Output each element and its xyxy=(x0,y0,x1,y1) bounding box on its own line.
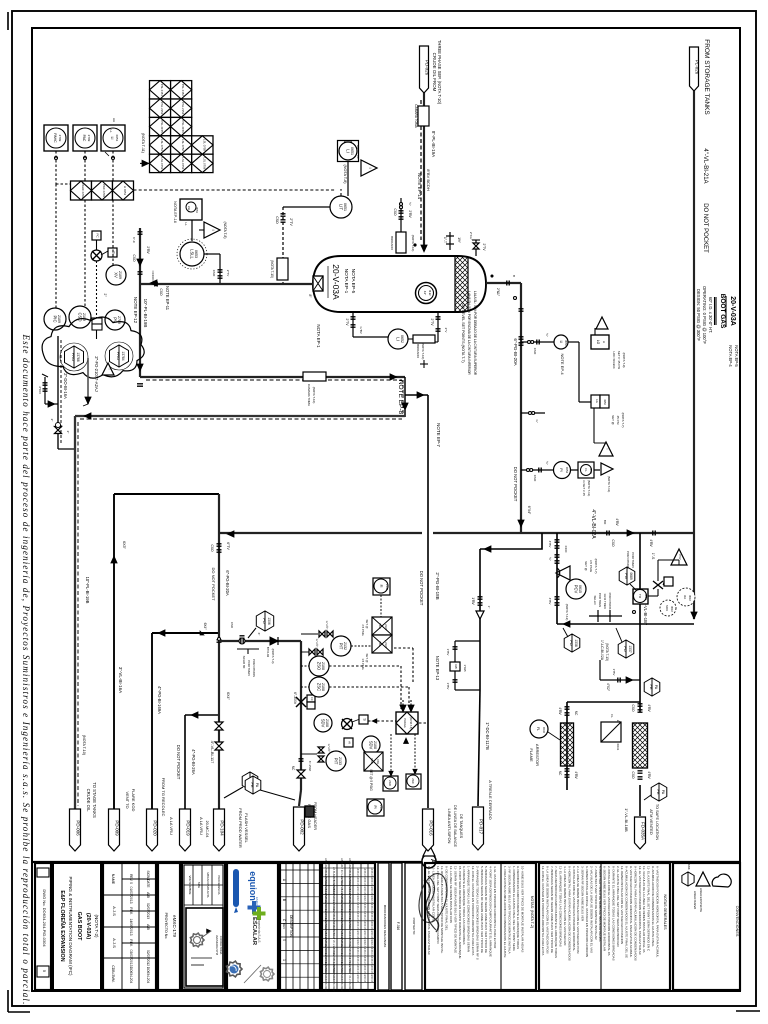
svg-text:SOV: SOV xyxy=(665,605,669,611)
svg-text:14/06/13: 14/06/13 xyxy=(356,973,358,983)
svg-text:NC: NC xyxy=(574,711,578,716)
svg-text:4″-PG-BI-26A: 4″-PG-BI-26A xyxy=(191,749,196,775)
svg-text:(NOTA T-11): (NOTA T-11) xyxy=(141,133,145,153)
svg-text:F-016: F-016 xyxy=(396,922,400,931)
svg-text:NOTE EP-11: NOTE EP-11 xyxy=(165,286,170,311)
svg-text:CSO: CSO xyxy=(611,540,615,547)
svg-text:NOTE EP-8: NOTE EP-8 xyxy=(397,380,404,415)
svg-text:2″-PG-BI-18B: 2″-PG-BI-18B xyxy=(435,572,440,599)
svg-text:PROYECTO No.: PROYECTO No. xyxy=(164,913,168,940)
svg-text:1″-DC-BI-117B: 1″-DC-BI-117B xyxy=(485,722,490,750)
svg-text:(NOTA T-3): (NOTA T-3) xyxy=(271,648,275,663)
svg-text:0: 0 xyxy=(282,939,286,941)
svg-text:AS BUILT 20-V-03A REV: AS BUILT 20-V-03A REV xyxy=(332,964,335,992)
svg-text:2132: 2132 xyxy=(384,624,388,630)
svg-text:DE TANQUES: DE TANQUES xyxy=(459,814,463,839)
svg-text:2108: 2108 xyxy=(325,719,329,727)
svg-text:PD-017: PD-017 xyxy=(479,819,484,835)
svg-text:5- B16.5 VER TIPICO DE MONTAJE: 5- B16.5 VER TIPICO DE MONTAJE INSTALAR … xyxy=(598,866,602,942)
svg-text:4″BV: 4″BV xyxy=(647,704,651,712)
svg-text:2- VALVULAS DE LA LINEA SE DEB: 2- VALVULAS DE LA LINEA SE DEBEN INSTALA… xyxy=(589,866,593,953)
svg-text:AVANZADA SYM: AVANZADA SYM xyxy=(215,935,219,955)
svg-text:A.B: A.B xyxy=(146,924,150,930)
svg-text:20-V-03A: 20-V-03A xyxy=(331,264,341,300)
svg-text:ATM VENTED: ATM VENTED xyxy=(649,809,654,835)
svg-text:0610: 0610 xyxy=(670,606,674,612)
svg-text:10″-PL-BI-19B: 10″-PL-BI-19B xyxy=(85,577,90,604)
svg-text:LL: LL xyxy=(356,155,360,159)
svg-text:0610: 0610 xyxy=(688,595,692,601)
svg-text:(NOTA T-10): (NOTA T-10) xyxy=(411,235,415,252)
svg-text:2″X¾″: 2″X¾″ xyxy=(469,232,473,240)
svg-text:(20-V-03A): (20-V-03A) xyxy=(85,913,91,940)
svg-text:2108: 2108 xyxy=(321,662,325,670)
svg-text:10- ASME B16.5 VER TIPICO DE M: 10- ASME B16.5 VER TIPICO DE MONTAJE INS… xyxy=(521,866,525,952)
svg-text:SIGN/DATE: SIGN/DATE xyxy=(146,871,150,888)
svg-text:8- DURANTE EL ARRANQUE TODAS L: 8- DURANTE EL ARRANQUE TODAS LAS CONEXIO… xyxy=(611,866,615,961)
svg-text:m SET # 45: m SET # 45 xyxy=(582,480,586,496)
svg-text:(NOTA T-11): (NOTA T-11) xyxy=(587,480,591,497)
svg-text:DO634-204: DO634-204 xyxy=(129,967,133,984)
svg-text:6- DURANTE EL ARRANQUE TODAS L: 6- DURANTE EL ARRANQUE TODAS LAS CONEXIO… xyxy=(462,866,466,944)
svg-text:A.B: A.B xyxy=(146,892,150,898)
svg-text:4″BV: 4″BV xyxy=(649,539,653,547)
svg-text:H: H xyxy=(602,341,606,343)
svg-text:1.5 PSIG: 1.5 PSIG xyxy=(361,658,365,669)
svg-text:CSO: CSO xyxy=(230,622,234,629)
svg-text:4- POINT SERA DEFINIDO EN CAMP: 4- POINT SERA DEFINIDO EN CAMPO DURANTE … xyxy=(489,866,493,957)
svg-text:1″BV: 1″BV xyxy=(471,597,475,605)
svg-text:PCV: PCV xyxy=(574,585,579,594)
svg-text:12- CON EL VASTAGO EN POSICION: 12- CON EL VASTAGO EN POSICION HORIZONTA… xyxy=(471,866,475,955)
svg-text:PAH: PAH xyxy=(378,623,382,629)
svg-text:9- ACUMULACION DE CONDENSADOS: 9- ACUMULACION DE CONDENSADOS EL AJUSTE … xyxy=(651,866,655,947)
svg-text:REV. 0: REV. 0 xyxy=(129,874,133,884)
svg-text:(NOTA T-10): (NOTA T-10) xyxy=(312,387,316,404)
svg-text:1″GB: 1″GB xyxy=(463,664,467,671)
svg-text:6X4″: 6X4″ xyxy=(226,692,230,700)
svg-text:(NOTA T-10): (NOTA T-10) xyxy=(421,343,425,360)
svg-text:CONVENCIONES: CONVENCIONES xyxy=(735,906,739,937)
svg-text:2709: 2709 xyxy=(117,316,121,324)
svg-text:PIT: PIT xyxy=(334,758,339,765)
svg-text:11- EL ARRANQUE TODAS LAS CONE: 11- EL ARRANQUE TODAS LAS CONEXIONES BRI… xyxy=(559,866,563,947)
svg-text:SCHD 80: SCHD 80 xyxy=(242,656,246,669)
svg-text:A.J.S: A.J.S xyxy=(112,938,117,948)
svg-text:LINEA ANTI-SIFON: LINEA ANTI-SIFON xyxy=(447,809,452,844)
svg-text:(NOTA T-8): (NOTA T-8) xyxy=(223,221,227,238)
svg-text:REV.: REV. xyxy=(129,939,133,946)
svg-text:10″-PL-BI-19B: 10″-PL-BI-19B xyxy=(143,299,148,328)
svg-text:NOTE EP-13: NOTE EP-13 xyxy=(435,656,440,681)
svg-text:6- DEBEN INSTALAR CON EL VASTA: 6- DEBEN INSTALAR CON EL VASTAGO EN POSI… xyxy=(585,866,589,957)
svg-text:6″X4″: 6″X4″ xyxy=(527,506,531,515)
svg-text:CSO: CSO xyxy=(275,216,279,224)
svg-text:2- ARRANQUE TODAS LAS CONEXION: 2- ARRANQUE TODAS LAS CONEXIONES BRIDADA… xyxy=(475,866,479,960)
svg-text:CRUDE OIL: CRUDE OIL xyxy=(86,789,91,812)
svg-text:45 PSI: 45 PSI xyxy=(616,415,620,424)
svg-text:6X4″: 6X4″ xyxy=(203,623,207,631)
svg-text:3- SERAN RF SEGUN ASME B16.5 V: 3- SERAN RF SEGUN ASME B16.5 VER xyxy=(581,866,585,922)
svg-text:AS BUILT 20-V-03A REV: AS BUILT 20-V-03A REV xyxy=(348,964,351,992)
svg-text:PD-016: PD-016 xyxy=(429,820,434,836)
svg-text:5- BRIDADAS SERAN RF SEGUN ASM: 5- BRIDADAS SERAN RF SEGUN ASME B16.5 VE… xyxy=(484,866,488,953)
svg-text:AI: AI xyxy=(348,741,352,744)
svg-text:NC: NC xyxy=(291,766,295,771)
svg-text:8- DE CONDENSADOS EL AJUSTE FI: 8- DE CONDENSADOS EL AJUSTE FINAL DEL xyxy=(445,866,449,931)
svg-text:GAS BOOT: GAS BOOT xyxy=(76,912,82,941)
svg-text:E&P FLOREÑA EXPANSION: E&P FLOREÑA EXPANSION xyxy=(59,890,66,961)
svg-text:B: B xyxy=(512,275,516,277)
svg-text:13- RF SEGUN ASME B16.5 VER TI: 13- RF SEGUN ASME B16.5 VER TIPICO DE MO… xyxy=(440,866,444,954)
svg-text:13784: 13784 xyxy=(121,351,125,360)
svg-text:0689: 0689 xyxy=(629,572,633,580)
svg-text:NOTA EP-1: NOTA EP-1 xyxy=(316,324,321,348)
svg-text:FD-035A: FD-035A xyxy=(641,822,646,840)
svg-text:2″-FO-21077-A2AJ: 2″-FO-21077-A2AJ xyxy=(94,356,99,391)
svg-text:2132: 2132 xyxy=(343,642,347,650)
svg-text:2″CO: 2″CO xyxy=(38,386,42,394)
svg-text:POR TREN: POR TREN xyxy=(631,552,635,567)
svg-text:PSL 2152: PSL 2152 xyxy=(181,84,185,97)
svg-text:1- CONDENSADOS EL AJUSTE FINAL: 1- CONDENSADOS EL AJUSTE FINAL DEL SET P… xyxy=(512,866,516,951)
svg-text:VENT TO: VENT TO xyxy=(125,791,130,808)
svg-text:PSL 2153: PSL 2153 xyxy=(160,102,164,115)
svg-text:PG: PG xyxy=(624,573,629,579)
svg-text:PI: PI xyxy=(559,468,563,471)
svg-text:12- EL VASTAGO EN POSICION HOR: 12- EL VASTAGO EN POSICION HORIZONTAL PA… xyxy=(638,866,642,956)
svg-text:eMXC-179: eMXC-179 xyxy=(172,915,177,937)
svg-text:FE: FE xyxy=(656,789,661,794)
svg-text:CSO: CSO xyxy=(210,545,214,552)
svg-text:0610: 0610 xyxy=(644,594,648,600)
svg-text:2109: 2109 xyxy=(57,315,61,323)
svg-text:PIT: PIT xyxy=(339,643,344,650)
svg-text:4″BV: 4″BV xyxy=(548,598,552,605)
svg-text:LSL 0753: LSL 0753 xyxy=(160,157,164,169)
svg-text:2″TV: 2″TV xyxy=(482,244,486,252)
svg-text:LG: LG xyxy=(595,399,599,403)
svg-text:13- VALVULAS DE LA LINEA SE DE: 13- VALVULAS DE LA LINEA SE DEBEN INSTAL… xyxy=(642,866,646,953)
svg-text:0615: 0615 xyxy=(578,585,582,593)
svg-text:1½″: 1½″ xyxy=(457,237,461,243)
svg-text:M.W.: M.W. xyxy=(428,290,432,296)
svg-text:2″BV: 2″BV xyxy=(146,246,150,254)
svg-text:15- EL VASTAGO EN POSICION HOR: 15- EL VASTAGO EN POSICION HORIZONTAL PA… xyxy=(427,866,431,956)
svg-text:HH: HH xyxy=(112,118,116,122)
svg-text:6″TV: 6″TV xyxy=(226,542,230,550)
svg-text:2109: 2109 xyxy=(82,313,86,321)
svg-text:FO: FO xyxy=(262,618,267,624)
svg-text:DO634-204: DO634-204 xyxy=(146,967,150,984)
svg-text:LAH/LSH: 55% POR ENCIMA DE LA: LAH/LSH: 55% POR ENCIMA DE LA CINTURA IN… xyxy=(467,291,471,375)
svg-text:9- DEFINIDO EN CAMPO DURANTE E: 9- DEFINIDO EN CAMPO DURANTE EL ARRANQUE… xyxy=(516,866,520,949)
svg-text:CSO: CSO xyxy=(631,705,635,712)
svg-text:½″: ½″ xyxy=(545,333,549,337)
svg-text:3- RF SEGUN ASME B16.5 VER TIP: 3- RF SEGUN ASME B16.5 VER TIPICO DE MON… xyxy=(507,866,511,954)
svg-text:PSL 2154: PSL 2154 xyxy=(181,102,185,115)
svg-text:4″BV: 4″BV xyxy=(574,771,578,779)
svg-text:8- ACUMULACION DE CONDENSADOS: 8- ACUMULACION DE CONDENSADOS EL AJUSTE … xyxy=(625,866,629,958)
svg-text:═CCO═: ═CCO═ xyxy=(151,270,155,283)
svg-text:4- EL VASTAGO EN POSICION HORI: 4- EL VASTAGO EN POSICION HORIZONTAL PAR… xyxy=(493,866,497,949)
svg-text:CSO: CSO xyxy=(631,772,635,779)
svg-text:4″-VL-BI-21A: 4″-VL-BI-21A xyxy=(702,148,708,183)
svg-text:NOTAS GENERALES: NOTAS GENERALES xyxy=(663,894,667,930)
svg-text:1″BV: 1″BV xyxy=(612,669,616,676)
svg-text:2″&1″: 2″&1″ xyxy=(496,288,500,297)
svg-text:12- CON EL VASTAGO EN POSICION: 12- CON EL VASTAGO EN POSICION HORIZONTA… xyxy=(541,866,545,955)
svg-text:13- LINEA SE DEBEN INSTALAR CO: 13- LINEA SE DEBEN INSTALAR CON EL xyxy=(431,866,435,923)
svg-text:CSO: CSO xyxy=(212,270,216,277)
svg-text:POR OTROS: POR OTROS xyxy=(626,551,630,569)
svg-text:1: 1 xyxy=(282,959,286,961)
svg-text:B: B xyxy=(282,899,286,901)
svg-text:12- FINAL DEL SET POINT SERA D: 12- FINAL DEL SET POINT SERA DEFINIDO EN… xyxy=(436,866,440,944)
svg-text:14/06/13: 14/06/13 xyxy=(363,973,365,983)
svg-text:1″BV: 1″BV xyxy=(446,649,450,656)
svg-text:CAMARA TOMA: CAMARA TOMA xyxy=(414,104,418,128)
svg-text:(NOTA T-12): (NOTA T-12) xyxy=(565,604,569,621)
svg-text:2″-DO-BI-16A: 2″-DO-BI-16A xyxy=(63,373,68,399)
svg-text:PIPING & INSTRUMENTATION DIAGR: PIPING & INSTRUMENTATION DIAGRAM (IFC) xyxy=(68,876,73,976)
svg-text:PSL 2151: PSL 2151 xyxy=(160,84,164,97)
svg-text:PD-006: PD-006 xyxy=(76,820,81,836)
svg-text:NC: NC xyxy=(558,771,562,776)
svg-text:LL: LL xyxy=(184,222,188,226)
svg-text:2″TV: 2″TV xyxy=(345,319,349,327)
svg-text:11- EL AJUSTE FINAL DEL SET PO: 11- EL AJUSTE FINAL DEL SET POINT SERA D… xyxy=(647,866,651,952)
svg-text:4″X2″: 4″X2″ xyxy=(606,683,610,692)
svg-text:6- SEGUN ASME B16.5 VER TIPICO: 6- SEGUN ASME B16.5 VER TIPICO DE MONTAJ… xyxy=(603,866,607,952)
svg-text:NOTA EP-1: NOTA EP-1 xyxy=(343,269,349,294)
svg-text:8″-PL-BI-19A: 8″-PL-BI-19A xyxy=(431,131,436,157)
svg-text:TANK: TANK xyxy=(687,862,691,869)
svg-text:2.5 PSIG: 2.5 PSIG xyxy=(361,624,365,635)
svg-text:01/03/2013: 01/03/2013 xyxy=(129,887,133,904)
svg-text:1338: 1338 xyxy=(574,639,578,647)
svg-text:FE: FE xyxy=(649,684,654,689)
svg-text:6″-PG-BI-20A: 6″-PG-BI-20A xyxy=(225,570,230,596)
svg-text:¾″BV: ¾″BV xyxy=(359,326,363,334)
svg-text:ZAC: ZAC xyxy=(411,778,415,784)
svg-text:1- ARRANQUE TODAS LAS CONEXION: 1- ARRANQUE TODAS LAS CONEXIONES BRIDADA… xyxy=(467,866,471,952)
svg-text:(NOTA T-7): (NOTA T-7) xyxy=(594,558,598,573)
svg-text:8- HORIZONTAL PARA EVITAR ACUM: 8- HORIZONTAL PARA EVITAR ACUMULACION DE… xyxy=(567,866,571,961)
svg-text:FL: FL xyxy=(610,714,614,718)
svg-text:(NOTA T-11): (NOTA T-11) xyxy=(607,476,611,493)
svg-text:POR TREN: POR TREN xyxy=(247,660,251,675)
svg-text:SDV: SDV xyxy=(321,719,326,728)
svg-text:OPERATING: 0 PSIG @ 100°F: OPERATING: 0 PSIG @ 100°F xyxy=(702,286,707,344)
svg-text:PD-019: PD-019 xyxy=(186,820,191,836)
svg-text:13788: 13788 xyxy=(76,352,80,361)
svg-text:NOTAS: (NOTA T-2): NOTAS: (NOTA T-2) xyxy=(530,896,534,928)
svg-text:PIC: PIC xyxy=(53,316,58,323)
svg-text:8- LA LINEA SE DEBEN INSTALAR: 8- LA LINEA SE DEBEN INSTALAR CON EL VAS… xyxy=(545,866,549,954)
svg-text:0650: 0650 xyxy=(564,340,568,346)
svg-text:TO STAGE TANKS: TO STAGE TANKS xyxy=(92,782,97,818)
svg-text:6″: 6″ xyxy=(257,633,261,636)
svg-text:15- POINT SERA DEFINIDO EN CAM: 15- POINT SERA DEFINIDO EN CAMPO DURANTE… xyxy=(458,866,462,959)
svg-text:20-MC-04: 20-MC-04 xyxy=(205,821,209,838)
svg-text:¾″x½″: ¾″x½″ xyxy=(325,621,329,630)
svg-text:POR TREN: POR TREN xyxy=(598,593,602,607)
svg-text:OIL LEVEL SET POINTS (NOTA T-7: OIL LEVEL SET POINTS (NOTA T-7) xyxy=(461,303,465,362)
svg-text:PROCEDENCIA: PROCEDENCIA xyxy=(217,875,221,894)
svg-text:NOTE EP-4: NOTE EP-4 xyxy=(560,353,565,375)
svg-text:9- VASTAGO EN POSICION HORIZON: 9- VASTAGO EN POSICION HORIZONTAL PARA E… xyxy=(629,866,633,958)
svg-text:FRO: FRO xyxy=(116,352,121,360)
svg-text:SET @: SET @ xyxy=(611,415,615,425)
svg-text:1- PARA EVITAR ACUMULACION DE: 1- PARA EVITAR ACUMULACION DE CONDENSADO… xyxy=(503,866,507,957)
svg-text:DO NOT POCKET: DO NOT POCKET xyxy=(513,467,518,502)
svg-text:(NOTA T-13): (NOTA T-13) xyxy=(605,643,609,661)
svg-text:A TREN-E CERRADO: A TREN-E CERRADO xyxy=(488,780,493,820)
svg-text:FE: FE xyxy=(250,782,255,787)
svg-text:6″-PG-BI-20A: 6″-PG-BI-20A xyxy=(513,338,518,365)
svg-text:11- SERAN RF SEGUN ASME B16.5: 11- SERAN RF SEGUN ASME B16.5 VER TIPICO… xyxy=(453,866,457,953)
svg-text:DO NOT POCKET: DO NOT POCKET xyxy=(176,745,181,780)
svg-text:CSO: CSO xyxy=(78,312,83,322)
svg-text:POR OTROS: POR OTROS xyxy=(608,593,612,610)
svg-text:!: ! xyxy=(107,369,111,370)
svg-text:LSL 0751: LSL 0751 xyxy=(160,139,164,151)
svg-text:2132: 2132 xyxy=(385,584,389,591)
svg-text:SELLO: SELLO xyxy=(593,595,597,605)
svg-text:BRIDADO: BRIDADO xyxy=(416,344,420,358)
svg-text:1337: 1337 xyxy=(628,645,632,653)
svg-text:!: ! xyxy=(605,449,609,450)
svg-text:LDC SN-964: LDC SN-964 xyxy=(612,351,616,368)
svg-text:DESIGN: 50 PSIG @ 300°F: DESIGN: 50 PSIG @ 300°F xyxy=(696,289,701,341)
svg-text:FL: FL xyxy=(584,468,588,472)
svg-text:CAMARA TOMA: CAMARA TOMA xyxy=(307,384,311,406)
svg-text:¾″x½″: ¾″x½″ xyxy=(327,744,331,753)
svg-text:CDB./JMM.: CDB./JMM. xyxy=(111,965,115,982)
svg-text:PD-104: PD-104 xyxy=(220,820,225,836)
svg-text:ZAO: ZAO xyxy=(388,780,392,787)
svg-text:2″: 2″ xyxy=(50,419,54,422)
svg-text:MODIFICACIONES REALIZADAS: MODIFICACIONES REALIZADAS xyxy=(383,905,387,948)
svg-text:ESCALAR: ESCALAR xyxy=(251,917,257,946)
svg-text:4″-VL-BI-117: 4″-VL-BI-117 xyxy=(210,741,215,764)
svg-text:PD-020: PD-020 xyxy=(153,820,158,836)
svg-text:0654: 0654 xyxy=(565,467,569,474)
svg-text:0653: 0653 xyxy=(194,250,198,258)
svg-text:60″ I.D. x 30’-0″ HT.: 60″ I.D. x 30’-0″ HT. xyxy=(708,297,713,333)
svg-text:PAC 2709: PAC 2709 xyxy=(102,184,106,197)
svg-text:PSV: PSV xyxy=(678,554,682,559)
svg-text:4″BV: 4″BV xyxy=(548,541,552,548)
svg-text:1″: 1″ xyxy=(487,606,491,609)
svg-text:SDV: SDV xyxy=(369,741,374,750)
svg-text:LI: LI xyxy=(110,137,114,140)
svg-text:2709: 2709 xyxy=(87,135,91,142)
svg-text:½″: ½″ xyxy=(545,461,549,465)
svg-text:5- BRIDADAS SERAN RF SEGUN ASM: 5- BRIDADAS SERAN RF SEGUN ASME B16.5 VE… xyxy=(480,866,484,953)
svg-text:¾″x½″: ¾″x½″ xyxy=(315,639,319,648)
svg-text:PAL: PAL xyxy=(378,641,382,647)
svg-text:A LA VRU: A LA VRU xyxy=(169,817,174,835)
svg-text:4″BV: 4″BV xyxy=(558,707,562,715)
svg-text:2108: 2108 xyxy=(373,741,377,749)
svg-text:LSL 0755: LSL 0755 xyxy=(202,139,206,151)
svg-text:POR OTROS: POR OTROS xyxy=(252,659,256,677)
svg-text:CSO: CSO xyxy=(533,475,537,482)
svg-text:PD-002: PD-002 xyxy=(300,819,305,835)
svg-text:1″-S: 1″-S xyxy=(651,553,655,560)
svg-text:NOTA EP-5: NOTA EP-5 xyxy=(350,269,356,294)
svg-text:ingeniería S.A.S: ingeniería S.A.S xyxy=(257,919,261,942)
svg-text:6″-C: 6″-C xyxy=(132,237,136,244)
svg-text:SET @ 5 PSIG: SET @ 5 PSIG xyxy=(369,769,373,791)
svg-text:SET @: SET @ xyxy=(584,561,588,571)
svg-text:1″-VL-BI-18B: 1″-VL-BI-18B xyxy=(624,808,629,832)
svg-text:PD-026: PD-026 xyxy=(425,60,430,76)
svg-text:8″BV BCDH: 8″BV BCDH xyxy=(426,169,431,191)
svg-text:THREE PHASE SEP. (NOTA T-10): THREE PHASE SEP. (NOTA T-10) xyxy=(437,40,442,105)
svg-text:BO: BO xyxy=(603,520,607,525)
svg-text:FLASH VESSEL: FLASH VESSEL xyxy=(244,813,249,843)
svg-text:14/06/2013: 14/06/2013 xyxy=(129,919,133,936)
svg-text:SIZE: SIZE xyxy=(197,882,201,888)
svg-text:FROM STORAGE TANKS: FROM STORAGE TANKS xyxy=(703,39,710,115)
svg-text:PSL 2155: PSL 2155 xyxy=(160,121,164,134)
svg-text:CSO: CSO xyxy=(533,348,537,355)
svg-text:AS BUILT 20-V-03A REV: AS BUILT 20-V-03A REV xyxy=(340,964,343,992)
svg-text:UA: UA xyxy=(683,595,687,599)
svg-text:FLAME: FLAME xyxy=(529,748,534,762)
svg-text:2108: 2108 xyxy=(321,683,325,691)
svg-text:TO SAFE LOCATION: TO SAFE LOCATION xyxy=(655,804,659,841)
svg-text:PROYECTO: PROYECTO xyxy=(412,918,416,935)
svg-text:3″-VL-BI-16A: 3″-VL-BI-16A xyxy=(118,667,123,693)
svg-text:12- DEBEN INSTALAR CON EL VAST: 12- DEBEN INSTALAR CON EL VASTAGO EN POS… xyxy=(620,866,624,944)
svg-text:DO NOT POCKET: DO NOT POCKET xyxy=(211,567,216,601)
svg-text:½″: ½″ xyxy=(548,557,552,561)
svg-text:REV.: REV. xyxy=(129,907,133,914)
svg-text:LINEA EXISTENTE: LINEA EXISTENTE xyxy=(699,888,703,912)
svg-text:NOTE EP-12: NOTE EP-12 xyxy=(133,297,138,324)
svg-text:(NOTA T-8): (NOTA T-8) xyxy=(343,164,347,184)
svg-text:CSO: CSO xyxy=(159,289,163,296)
svg-text:2- LA LINEA SE DEBEN INSTALAR: 2- LA LINEA SE DEBEN INSTALAR CON EL VAS… xyxy=(576,866,580,954)
svg-text:20-V-03A: 20-V-03A xyxy=(729,296,736,326)
svg-text:02/03/2012: 02/03/2012 xyxy=(146,950,150,966)
svg-text:I: I xyxy=(211,229,216,230)
svg-text:NAME: NAME xyxy=(111,874,115,885)
svg-text:CSO: CSO xyxy=(393,209,397,216)
svg-text:CONSULTORIA: CONSULTORIA xyxy=(219,936,223,955)
svg-text:TO: TO xyxy=(638,594,642,599)
svg-text:FO: FO xyxy=(623,646,628,652)
svg-text:LIT: LIT xyxy=(339,204,344,210)
svg-text:CSO: CSO xyxy=(132,255,136,262)
svg-text:BOOT GAS: BOOT GAS xyxy=(719,294,726,329)
svg-text:(NOTA T-10): (NOTA T-10) xyxy=(270,260,274,278)
svg-text:2″: 2″ xyxy=(66,431,70,434)
svg-text:0656: 0656 xyxy=(589,468,593,474)
svg-text:SET P 45 PSI: SET P 45 PSI xyxy=(617,351,621,370)
svg-text:VOR NOMBRE: VOR NOMBRE xyxy=(188,875,192,894)
svg-text:PAC: PAC xyxy=(82,135,86,142)
svg-text:(NOTA T-10): (NOTA T-10) xyxy=(82,735,86,755)
svg-text:PI: PI xyxy=(373,805,377,808)
svg-text:2″TV: 2″TV xyxy=(226,270,230,277)
svg-text:½″: ½″ xyxy=(408,202,412,206)
svg-text:0651: 0651 xyxy=(350,147,354,155)
